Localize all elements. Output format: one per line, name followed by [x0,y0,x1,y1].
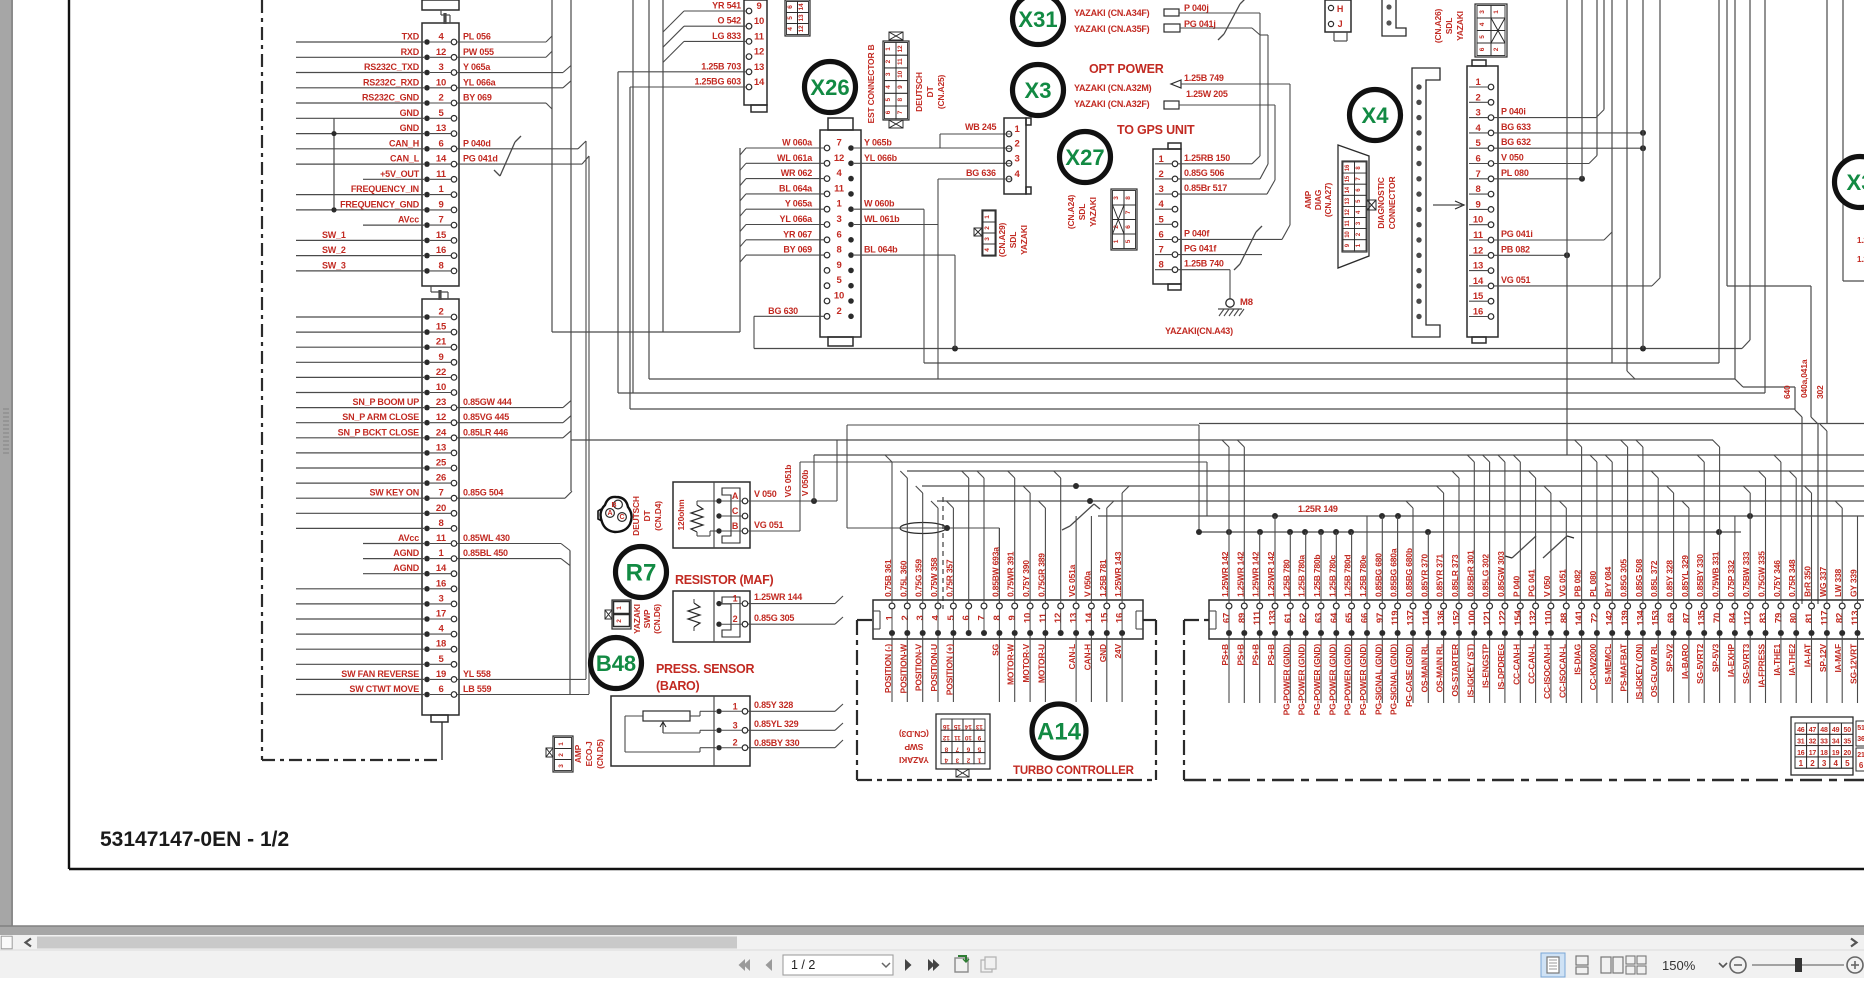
svg-text:(CN.A24): (CN.A24) [1066,194,1076,229]
wire YL558 [457,678,586,680]
svg-text:3: 3 [1475,108,1480,119]
svg-text:BL 064b: BL 064b [864,245,898,255]
svg-text:16: 16 [436,578,446,589]
svg-text:13: 13 [1069,613,1080,623]
svg-text:0.85BrR 301: 0.85BrR 301 [1465,550,1475,597]
svg-text:10: 10 [436,382,446,393]
svg-text:(BARO): (BARO) [656,679,699,693]
svg-text:WL 061a: WL 061a [777,153,813,163]
svg-text:IA-IAT: IA-IAT [1803,643,1813,667]
svg-text:134: 134 [1635,609,1646,625]
svg-text:PG 041i: PG 041i [1501,229,1533,239]
svg-text:BL 064a: BL 064a [779,183,813,193]
svg-text:12: 12 [1473,245,1483,256]
svg-text:22: 22 [436,367,446,378]
svg-text:3: 3 [1014,153,1019,164]
svg-text:0.75GR 389: 0.75GR 389 [1036,553,1046,597]
svg-text:YAZAKI: YAZAKI [899,755,929,765]
svg-text:120ohm: 120ohm [676,499,686,531]
svg-text:0.85G 305: 0.85G 305 [754,613,794,623]
svg-text:2: 2 [438,307,443,318]
svg-text:13: 13 [976,723,983,730]
svg-text:5: 5 [885,98,892,102]
svg-text:4: 4 [1479,22,1486,26]
bus H393 [618,392,1765,394]
page bottom edge band [0,926,1864,935]
svg-text:6: 6 [1475,154,1480,165]
bus H516 [1098,515,1864,517]
wire PG041f [1178,254,1262,256]
BARO pin 3 [716,728,721,733]
wire VG051 row [748,530,800,532]
svg-text:X27: X27 [1065,145,1104,170]
J1a pin 5 GND [424,116,430,122]
svg-text:WL 061b: WL 061b [864,214,900,224]
svg-text:SW_1: SW_1 [322,230,346,240]
svg-text:SWP: SWP [642,609,652,628]
svg-text:PG-POWER (GND): PG-POWER (GND) [1281,644,1291,716]
terminal triangle 1.25B 749 [1171,80,1181,88]
svg-text:3: 3 [438,593,443,604]
ECU pin 117 [1824,603,1830,609]
designator X27 [1060,132,1111,183]
wire 1.25B 703 [618,71,746,73]
ECU pin 79 [1778,603,1784,609]
svg-text:AVcc: AVcc [398,533,419,543]
svg-text:142: 142 [1605,610,1616,625]
ECU pin 135 [1701,603,1707,609]
svg-text:SG-12VRT: SG-12VRT [1849,643,1859,684]
bus H486 [922,485,1864,487]
svg-text:SDL: SDL [1077,204,1087,220]
J1b pin 24 [424,435,430,441]
X26 pin 6 [824,237,830,243]
svg-text:5: 5 [1845,759,1850,768]
svg-text:(CN.A27): (CN.A27) [1323,182,1333,217]
ECU pin 139 [1625,603,1631,609]
svg-text:47: 47 [1809,727,1817,734]
svg-text:J: J [1338,19,1343,29]
A14 pin 4 [935,603,941,609]
ECU pin 100 [1471,603,1477,609]
svg-text:24: 24 [436,427,447,438]
bus H462 [800,461,1207,463]
A14 pin 10 [1027,603,1033,609]
svg-text:BY 069: BY 069 [463,93,492,103]
svg-text:0.85G 504: 0.85G 504 [463,488,503,498]
svg-text:O 542: O 542 [717,16,741,26]
svg-text:PL 080: PL 080 [1501,168,1529,178]
svg-text:YAZAKI: YAZAKI [1088,197,1098,227]
svg-text:4: 4 [984,248,991,252]
bus vertical V649 [648,0,650,379]
ECU pin 66 [1364,603,1370,609]
J1b pin 12 [424,420,430,426]
CN pin 14 [746,84,752,90]
J1a pin 6 CAN_H [424,146,430,152]
120ohm pin B [716,528,721,533]
svg-text:12: 12 [754,47,764,58]
bus vertical V570 lower [569,551,571,695]
wire O 542 [684,25,746,27]
svg-text:14: 14 [436,154,447,165]
GPS pin 7 [1172,252,1178,258]
svg-text:110: 110 [1543,611,1554,626]
X26 pin 12 [824,161,830,167]
connector WB245 (4-pin) [1004,118,1026,194]
CN pin 10 [746,23,752,29]
X26 pin 1 [824,206,830,212]
svg-text:C: C [732,506,739,516]
svg-text:7: 7 [897,110,904,114]
J1b pin 16 [424,586,430,592]
designator X3 [1013,65,1064,116]
corner H379 end [1735,379,1743,387]
ECU pin 121 [1487,603,1493,609]
toolbar continuous icon [1576,956,1588,965]
svg-text:ECO-J: ECO-J [584,741,594,766]
svg-text:PS+B: PS+B [1235,644,1245,666]
svg-text:1: 1 [1799,759,1804,768]
svg-text:PG-POWER (GND): PG-POWER (GND) [1312,644,1322,716]
toolbar zoom slider [1752,964,1844,966]
X4 pin 5 [1488,145,1494,151]
svg-text:RS232C_GND: RS232C_GND [362,93,420,103]
wire MAF1 [748,603,835,605]
bus horizontal H332 [552,331,740,333]
svg-text:72: 72 [1589,613,1600,623]
svg-text:IA-BARO: IA-BARO [1680,643,1690,679]
svg-text:141: 141 [1574,609,1585,625]
wire Y065a [457,72,563,74]
svg-text:14: 14 [1473,276,1484,287]
svg-text:PS+B: PS+B [1251,644,1261,666]
A14 pin 9 [1012,603,1018,609]
J1b pin 4 [424,631,430,637]
svg-text:0.85BW 693a: 0.85BW 693a [990,547,1000,597]
shield ellipse [900,523,946,534]
wire LG 833 [684,40,746,42]
bus vertical V571 [570,0,572,491]
svg-text:DEUTSCH: DEUTSCH [914,72,924,112]
svg-text:10: 10 [436,77,446,88]
J1b pin 7 [424,495,430,501]
bus V1735 [1734,0,1736,379]
svg-text:1.25W 205: 1.25W 205 [1186,89,1228,99]
CN pin 13 [746,69,752,75]
wire GPS3 [1178,193,1267,195]
svg-text:24V: 24V [1113,643,1123,658]
bowtie bottom EST B [889,120,903,128]
svg-text:IA-THE2: IA-THE2 [1787,644,1797,676]
bus H501 [937,500,1864,502]
svg-text:Y 065b: Y 065b [864,138,892,148]
J1a pin 14 CAN_L [424,161,430,167]
wire 0.85GW444 [457,407,563,409]
svg-text:0.75L 360: 0.75L 360 [898,560,908,597]
svg-text:5: 5 [1125,239,1132,243]
svg-text:80: 80 [1789,613,1800,623]
svg-text:V 050: V 050 [754,489,777,499]
dashed box A14 turbo controller [857,619,873,621]
svg-text:SW CTWT MOVE: SW CTWT MOVE [349,684,419,694]
ECU pin 110 [1548,603,1554,609]
J1a pin 13 GND [424,131,430,137]
svg-text:10: 10 [834,291,844,302]
svg-text:X26: X26 [810,75,849,100]
svg-text:0.85Y 328: 0.85Y 328 [1665,560,1675,597]
svg-text:12: 12 [1345,208,1351,215]
svg-text:7: 7 [977,615,988,620]
CN pin 12 [746,54,752,60]
svg-text:9: 9 [836,260,841,271]
svg-text:34: 34 [1832,739,1840,746]
svg-text:(CN.D6): (CN.D6) [652,604,662,634]
svg-text:2: 2 [733,614,738,624]
J1b pin 9 [424,360,430,366]
dash-dot ECU boundary left [261,0,263,760]
svg-text:W 060b: W 060b [864,199,895,209]
svg-text:1: 1 [1493,10,1500,14]
svg-text:2: 2 [558,753,565,757]
svg-text:0.85Br 517: 0.85Br 517 [1184,183,1227,193]
X4 pin 10 [1488,222,1494,228]
svg-text:8: 8 [438,518,443,529]
svg-text:51: 51 [1857,725,1864,732]
J1b pin 5 [424,662,430,668]
svg-text:8: 8 [1125,196,1132,200]
120ohm pin A [716,498,721,503]
terminal PG 041j [1164,24,1180,32]
svg-text:2: 2 [1493,47,1500,51]
horizontal scrollbar [0,935,1864,950]
svg-text:PS+B: PS+B [1266,644,1276,666]
connector grid EST B [883,41,909,120]
svg-text:0.75P 332: 0.75P 332 [1726,560,1736,597]
bus vertical V552 [551,0,553,332]
svg-text:SG: SG [990,643,1000,655]
ECU pin 154 [1517,603,1523,609]
A14 pin 14 [1089,603,1095,609]
svg-text:IS-DIAG: IS-DIAG [1573,643,1583,674]
svg-text:OS-GLOW RL: OS-GLOW RL [1649,644,1659,697]
svg-text:PRESS. SENSOR: PRESS. SENSOR [656,662,754,676]
bus V1765 [1764,0,1766,393]
svg-text:0.75R 357: 0.75R 357 [944,559,954,597]
wire LB559 [457,694,589,696]
J1b pin 10 [424,390,430,396]
J1b pin 23 [424,405,430,411]
page border frame [68,0,70,869]
designator A14 [1032,704,1086,758]
svg-text:FREQUENCY_GND: FREQUENCY_GND [340,199,420,209]
svg-text:49: 49 [1832,727,1840,734]
wire BG636 pin4 [938,178,1006,180]
designator B48 [591,638,642,689]
svg-text:17: 17 [1809,750,1817,757]
ECU pin 63 [1318,603,1324,609]
bus vertical V663 [662,0,664,332]
svg-text:9: 9 [438,199,443,210]
svg-text:17: 17 [436,609,446,620]
svg-text:IA-THE1: IA-THE1 [1772,644,1782,676]
svg-text:2: 2 [733,738,738,748]
svg-text:YAZAKI: YAZAKI [1455,11,1465,41]
svg-text:121: 121 [1482,609,1493,625]
J1a pin 2 RS232C_GND [424,100,430,106]
bus V1827 [1826,0,1828,424]
connector GPS (CN.A43) [1153,149,1181,284]
svg-text:132: 132 [1528,610,1539,625]
connector grid CN.A26 [1475,4,1507,57]
svg-text:6: 6 [836,229,841,240]
svg-text:2: 2 [616,619,623,623]
svg-text:9: 9 [1475,199,1480,210]
J1b pin 20 [424,511,430,517]
svg-text:V 050a: V 050a [1082,571,1092,597]
svg-text:19: 19 [1832,750,1840,757]
GPS pin 3 [1172,191,1178,197]
svg-text:P 040f: P 040f [1184,229,1210,239]
wire BG633 [1494,132,1643,134]
connector CN top-left (pins 9-14) [744,0,767,105]
svg-text:1.25B 780e: 1.25B 780e [1358,555,1368,597]
svg-text:OS-MAIN RL: OS-MAIN RL [1435,644,1445,693]
svg-text:8: 8 [1158,260,1163,271]
svg-text:13: 13 [436,442,446,453]
svg-text:12: 12 [943,734,950,741]
GPS pin 2 [1172,176,1178,182]
toolbar [0,950,1864,978]
svg-text:BG 633: BG 633 [1501,122,1531,132]
wire GPS2 [1178,178,1260,180]
svg-text:1.25B 781: 1.25B 781 [1098,559,1108,597]
connector J1 upper block [422,23,459,286]
svg-text:87: 87 [1681,613,1692,623]
svg-text:DT: DT [925,86,935,98]
svg-text:133: 133 [1268,610,1279,625]
svg-text:CC-KW2000: CC-KW2000 [1588,644,1598,691]
connector X4 left bracket [1412,68,1440,337]
BARO pin 2 [716,745,721,750]
svg-text:11: 11 [1345,220,1351,227]
svg-text:0.75G 359: 0.75G 359 [914,559,924,597]
svg-text:3: 3 [438,62,443,73]
connector grid YAZAKI SWP (CN.D6) [612,600,631,629]
svg-text:C: C [619,514,624,521]
BARO pin 1 [716,709,721,714]
WB245 pin 1 [1006,131,1012,137]
svg-text:6: 6 [885,110,892,114]
svg-text:0.75Y 390: 0.75Y 390 [1021,560,1031,597]
X26 pin 10 [824,298,830,304]
J1b pin 22 [424,375,430,381]
svg-text:BrR 350: BrR 350 [1803,566,1813,597]
svg-text:11: 11 [1038,612,1049,623]
svg-text:MOTOR-W: MOTOR-W [1006,643,1016,685]
svg-text:0.85G 506: 0.85G 506 [1184,168,1224,178]
J1b pin 19 [424,677,430,683]
svg-text:12: 12 [798,25,805,32]
svg-text:PG 041: PG 041 [1527,569,1537,597]
svg-text:CC-CAN-L: CC-CAN-L [1527,644,1537,684]
bowtie diagnostic [1367,200,1376,210]
svg-text:1: 1 [1113,239,1120,243]
svg-text:0.85YR 370: 0.85YR 370 [1419,554,1429,597]
svg-text:0.75B 361: 0.75B 361 [883,559,893,597]
connector X4 right block [1467,66,1498,337]
svg-text:12: 12 [834,153,844,164]
bus V1719 [1718,0,1720,363]
svg-text:11: 11 [954,734,961,741]
connector grid CN.A24 [1111,189,1137,250]
svg-text:154: 154 [1513,609,1524,625]
svg-text:15: 15 [1345,175,1351,182]
svg-text:SP-12V: SP-12V [1818,643,1828,672]
svg-text:P 040i: P 040i [1501,107,1526,117]
bus V1727 [1726,0,1728,286]
wire BARO3 [748,729,835,731]
svg-text:SW KEY ON: SW KEY ON [369,488,419,498]
svg-text:7: 7 [438,215,443,226]
svg-text:YAZAKI (CN.A34F): YAZAKI (CN.A34F) [1074,8,1150,18]
svg-text:136: 136 [1436,610,1447,625]
A14 pin 7 [981,603,987,609]
X4 pin 7 [1488,176,1494,182]
connector J1 lower block [422,299,459,715]
svg-text:Y 065a: Y 065a [785,199,813,209]
ECU pin 136 [1441,603,1447,609]
svg-text:0.85BG 680a: 0.85BG 680a [1389,548,1399,597]
bus V1604 [1603,0,1605,110]
svg-text:YAZAKI (CN.A35F): YAZAKI (CN.A35F) [1074,24,1150,34]
svg-text:A: A [607,510,612,517]
svg-text:3: 3 [885,72,892,76]
svg-text:111: 111 [1252,610,1263,625]
bus V837 [836,440,838,501]
svg-text:0.85LR 446: 0.85LR 446 [463,427,508,437]
svg-text:BG 630: BG 630 [768,306,798,316]
svg-text:P 040d: P 040d [463,138,491,148]
X4 pin 2 [1488,100,1494,106]
wire PW055 [457,56,546,58]
switch symbol B pair [1512,536,1536,558]
ECU pin 64 [1333,603,1339,609]
svg-text:1.25WR 142: 1.25WR 142 [1266,551,1276,597]
bus V1627 [1626,0,1628,371]
J1b pin 6 [424,692,430,698]
svg-text:9: 9 [438,352,443,363]
svg-text:63: 63 [1314,613,1325,623]
wire BY 069 [746,254,824,256]
svg-text:26: 26 [436,473,446,484]
ECU pin 114 [1425,603,1431,609]
X4 pin 15 [1488,298,1494,304]
toolbar two-page icon [1601,957,1611,973]
connector ECU strip right [1209,600,1864,639]
svg-text:0.75GW 335: 0.75GW 335 [1757,551,1767,597]
diagnostic connector trapezoid [1338,145,1369,268]
svg-text:18: 18 [1820,750,1828,757]
svg-text:65: 65 [1344,612,1355,623]
svg-text:0.85BG 680b: 0.85BG 680b [1404,548,1414,597]
svg-text:0.85BL 450: 0.85BL 450 [463,548,508,558]
svg-text:4: 4 [787,27,794,31]
connector grid YAZAKI SDL (CN.A22) top [785,0,810,36]
svg-text:1.25WR 142: 1.25WR 142 [1251,551,1261,597]
svg-text:PL 080: PL 080 [1588,570,1598,597]
svg-text:BrY 084: BrY 084 [1603,566,1613,597]
